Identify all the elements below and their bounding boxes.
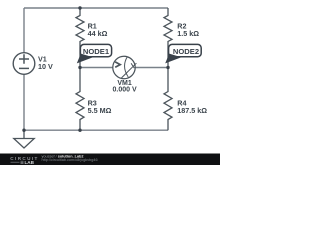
junction bottom of R3 branch (78, 129, 81, 132)
voltage source V1 (13, 53, 53, 75)
svg-text:NODE1: NODE1 (83, 47, 110, 56)
wire bottom rail (24, 129, 168, 131)
ground (14, 130, 34, 148)
junction bottom left (22, 129, 25, 132)
wire top rail (24, 7, 168, 9)
svg-text:44 kΩ: 44 kΩ (88, 29, 108, 38)
svg-text:10 V: 10 V (38, 62, 53, 71)
svg-text:0.000 V: 0.000 V (113, 87, 137, 94)
junction top of R1 branch (78, 6, 81, 9)
voltmeter VM1 (113, 56, 137, 93)
svg-text:5.5 MΩ: 5.5 MΩ (88, 106, 112, 115)
node NODE1 (77, 44, 112, 63)
svg-text:NODE2: NODE2 (173, 47, 199, 56)
junction NODE2 (166, 66, 169, 69)
svg-text:LAB: LAB (25, 160, 35, 165)
wire left rail upper (23, 8, 25, 53)
watermark bar (0, 154, 220, 166)
svg-text:http://circuitlab.com/c8rjcgkv: http://circuitlab.com/c8rjcgkvbg46 (42, 158, 98, 162)
svg-text:187.5 kΩ: 187.5 kΩ (177, 106, 207, 115)
wire left rail lower (23, 74, 25, 130)
resistor R4 (164, 68, 207, 131)
node NODE2 (165, 44, 201, 63)
resistor R2 (164, 8, 199, 68)
junction NODE1 (78, 66, 81, 69)
wire NODE1 to VM1 (80, 67, 113, 69)
svg-text:1.5 kΩ: 1.5 kΩ (177, 29, 199, 38)
wire VM1 to NODE2 (135, 67, 168, 69)
resistor R3 (76, 68, 112, 131)
resistor R1 (76, 8, 108, 68)
